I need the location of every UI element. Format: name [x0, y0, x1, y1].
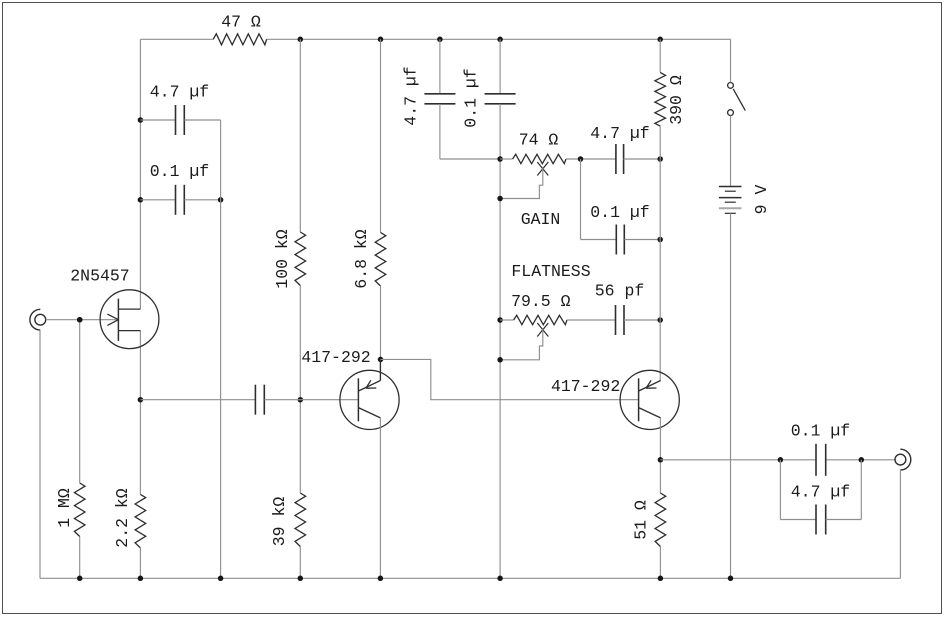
wire R 2.2k bottom to ground rail	[139, 548, 141, 578]
capacitor C6 4.7 µf	[616, 144, 624, 174]
wire C4 to gain pot	[440, 158, 500, 160]
wire output row right of C9	[826, 459, 895, 461]
junction battery/ground	[728, 576, 734, 582]
wire C7 right lead	[624, 239, 660, 241]
junction input/1M	[77, 317, 83, 323]
svg-text:9 V: 9 V	[752, 185, 771, 215]
node: gain pot left	[497, 156, 503, 162]
wire C7 left lead	[581, 239, 617, 241]
node: input / R 1M	[77, 317, 83, 323]
svg-text:FLATNESS: FLATNESS	[511, 262, 590, 281]
switch S1	[728, 83, 746, 116]
svg-text:2N5457: 2N5457	[70, 267, 129, 286]
battery B1 9 V	[719, 187, 742, 214]
svg-text:GAIN: GAIN	[521, 210, 561, 229]
node: C6 left / 0.1uf branch	[578, 156, 584, 162]
transistor Q3 417-292	[620, 370, 679, 429]
wire C10 right lead	[826, 519, 862, 521]
wire flatness pot left lead	[500, 319, 513, 321]
svg-text:47 Ω: 47 Ω	[221, 12, 261, 31]
node: Q2 emitter / interstage wire	[378, 357, 384, 363]
wire switch to battery +	[730, 116, 732, 187]
svg-text:0.1 µf: 0.1 µf	[590, 203, 649, 222]
wire Q2 collector to ground rail	[379, 418, 381, 578]
svg-text:56 pf: 56 pf	[595, 282, 645, 301]
svg-text:51 Ω: 51 Ω	[632, 500, 651, 540]
wire Q3 collector to output node / R51	[659, 418, 661, 493]
wire gain pot to C6	[566, 158, 616, 160]
capacitor C8 56 pf	[616, 305, 625, 335]
wire rail to switch	[730, 39, 732, 82]
svg-text:417-292: 417-292	[551, 377, 620, 396]
wire top rail right of R 47	[267, 38, 731, 40]
potentiometer R8 79.5 Ω (FLATNESS)	[514, 315, 567, 324]
wire flatness pot to C8	[567, 319, 616, 321]
wire cap C2 left lead	[140, 199, 175, 201]
junction 51/ground	[658, 576, 664, 582]
wire column x=500 (C5 down to ground)	[499, 104, 501, 578]
wire cap C1 left lead	[140, 119, 175, 121]
wire cap C2 right lead	[184, 199, 220, 201]
potentiometer R7 74 Ω (GAIN)	[513, 154, 566, 163]
capacitor C7 0.1 µf	[616, 225, 624, 255]
svg-text:74 Ω: 74 Ω	[519, 131, 559, 150]
svg-text:0.1 µf: 0.1 µf	[791, 421, 850, 440]
svg-text:4.7 µf: 4.7 µf	[150, 83, 209, 102]
capacitor C2 0.1 µf	[176, 185, 185, 215]
node: output loop left	[778, 457, 784, 463]
resistor R1 47 Ω	[213, 34, 266, 45]
junction rail/C5	[497, 37, 503, 43]
node: Q3 collector / output	[658, 457, 664, 463]
node: output loop right	[859, 457, 865, 463]
wire output loop left side	[779, 460, 781, 520]
wire R 51 bottom lead	[659, 547, 661, 579]
transistor Q1 2N5457 JFET	[100, 290, 159, 349]
resistor R10 51 Ω	[655, 493, 666, 547]
capacitor C4 4.7 µf	[424, 94, 455, 104]
wire C8 right lead	[624, 319, 660, 321]
svg-text:0.1 µf: 0.1 µf	[461, 68, 480, 127]
resistor R5 39 kΩ	[295, 493, 306, 547]
junction rail/C4	[437, 37, 443, 43]
resistor R6 6.8 kΩ	[375, 233, 386, 287]
node: C6 right / x=660 column	[657, 156, 663, 162]
capacitor C1 4.7 µf	[176, 105, 185, 135]
svg-text:2.2 kΩ: 2.2 kΩ	[113, 488, 132, 548]
node: gain wiper / x=500	[497, 196, 503, 202]
node: left column / 4.7uf cap top	[138, 117, 144, 123]
wire C6 right lead	[624, 158, 661, 160]
node: JFET source / coupling cap	[138, 397, 144, 403]
svg-text:4.7 µf: 4.7 µf	[402, 66, 421, 125]
node: Q2 base / 100k / 39k	[298, 397, 304, 403]
resistor R2 1 MΩ	[74, 483, 85, 537]
resistor R9 390 Ω	[655, 72, 666, 126]
capacitor C10 4.7 µf	[816, 505, 826, 535]
capacitor C5 0.1 µf	[485, 94, 516, 104]
wire C10 left lead	[780, 519, 816, 521]
junction x=220/ground	[218, 576, 224, 582]
junction 1M/ground	[77, 576, 83, 582]
svg-text:100 kΩ: 100 kΩ	[273, 229, 292, 289]
svg-text:390 Ω: 390 Ω	[667, 75, 686, 125]
wire gain pot wiper to x=500 column	[500, 168, 543, 199]
output terminal J2	[895, 449, 911, 470]
node: cap loop / x=220 column	[218, 197, 224, 203]
svg-text:79.5 Ω: 79.5 Ω	[511, 292, 571, 311]
capacitor C9 0.1 µf	[816, 444, 826, 476]
junction Q2 collector/ground	[378, 576, 384, 582]
wire output terminal down to ground rail	[899, 470, 901, 578]
wire C5 top lead	[499, 39, 501, 94]
capacitor C3 coupling	[255, 385, 264, 415]
node: flatness pot left	[497, 317, 503, 323]
wire bottom ground rail	[40, 577, 901, 579]
junction rail/390	[657, 37, 663, 43]
wire R 6.8k bottom to Q2 emitter	[380, 286, 382, 381]
svg-text:4.7 µf: 4.7 µf	[590, 124, 649, 143]
wire coupling cap to Q2 base	[264, 399, 358, 401]
junction rail/100k	[298, 37, 304, 43]
node: flatness wiper / x=500	[497, 357, 503, 363]
wire input terminal down to ground rail	[39, 330, 41, 578]
wire left column x=140 (JFET source down to R 2.2k)	[139, 331, 141, 495]
wire C4 top lead	[439, 39, 441, 94]
wire x=580 branch down	[580, 159, 582, 240]
wire R 6.8k top lead	[380, 39, 382, 232]
svg-text:1 MΩ: 1 MΩ	[55, 488, 74, 528]
wire between R 100k and R 39k	[299, 286, 301, 494]
wire R 1M bottom lead	[79, 537, 81, 579]
resistor R3 2.2 kΩ	[135, 494, 146, 548]
wire R 390 bottom to Q3 emitter	[659, 126, 661, 381]
resistor R4 100 kΩ	[295, 232, 306, 286]
wire R 390 top lead	[659, 39, 661, 72]
wire battery - to ground rail	[730, 213, 732, 578]
wire gain pot left lead	[500, 158, 512, 160]
node: C7 right / x=660 column	[657, 237, 663, 243]
input terminal J1	[30, 309, 46, 330]
gain pot wiper arrow	[537, 162, 548, 176]
junction 39k/ground	[298, 576, 304, 582]
svg-text:417-292: 417-292	[301, 348, 370, 367]
wire R 39k bottom lead	[299, 547, 301, 579]
wire output row left of C9	[660, 459, 816, 461]
wire top rail left of R 47	[140, 38, 213, 40]
svg-text:4.7 µf: 4.7 µf	[791, 482, 850, 501]
wire R 100k top lead	[299, 39, 301, 232]
transistor Q2 417-292	[340, 359, 399, 429]
svg-text:6.8 kΩ: 6.8 kΩ	[352, 229, 371, 289]
wire Q2 emitter node to Q3 base	[381, 359, 639, 399]
wire JFET source to coupling cap	[140, 399, 255, 401]
node: left column / 0.1uf cap bottom	[138, 197, 144, 203]
junction 2.2k/ground	[138, 576, 144, 582]
svg-text:0.1 µf: 0.1 µf	[150, 162, 209, 181]
junction rail/6.8k	[378, 37, 384, 43]
wire left column x=140 upper (rail to JFET drain)	[139, 39, 141, 309]
svg-text:39 kΩ: 39 kΩ	[270, 497, 289, 547]
wire C4 bottom lead	[439, 104, 441, 159]
wire output loop right side	[860, 460, 862, 520]
node: C8 right / x=660 column	[657, 317, 663, 323]
wire column x=220 (cap loop to ground)	[220, 120, 222, 578]
wire R 1M top lead	[79, 320, 81, 483]
wire input to JFET gate	[46, 319, 119, 321]
flatness pot wiper arrow	[537, 323, 548, 337]
wire flatness pot wiper to x=500 column	[500, 329, 543, 360]
wire cap C1 right lead	[184, 119, 220, 121]
junction x=500/ground	[497, 576, 503, 582]
